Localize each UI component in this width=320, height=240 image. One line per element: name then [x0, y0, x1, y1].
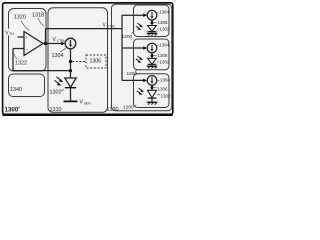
ground unit 1: [151, 32, 153, 34]
leader 1304: [60, 48, 66, 52]
svg-text:CTRL: CTRL: [57, 39, 66, 43]
svg-text:1306: 1306: [158, 87, 169, 92]
leader 1200 unit 2: [135, 70, 137, 72]
block 1330 (right outer rounded box): [112, 4, 172, 111]
wire branch to unit 3: [122, 79, 144, 81]
wire VTH to op-amp plus input: [18, 36, 25, 38]
svg-text:1340: 1340: [10, 87, 22, 93]
leader 1302 unit 1: [157, 28, 159, 31]
leader 1200 unit 1: [132, 31, 135, 34]
node junction unit 2: [151, 54, 154, 57]
svg-text:1322: 1322: [15, 61, 27, 67]
wire branch to unit 1: [122, 14, 144, 16]
svg-text:TH: TH: [9, 32, 14, 36]
svg-text:1306: 1306: [158, 53, 169, 58]
svg-text:1320: 1320: [14, 15, 26, 21]
node junction lower: [69, 69, 72, 72]
svg-text:1304: 1304: [159, 42, 170, 47]
leader 1322: [14, 54, 17, 60]
leader 1304 unit 3: [157, 79, 159, 82]
figure frame 1300': [3, 3, 173, 115]
LED unit 3: [148, 90, 157, 98]
leader 1306 unit 2: [154, 54, 157, 56]
LED arrows unit 3: [139, 88, 143, 91]
svg-text:1300′: 1300′: [5, 107, 21, 114]
leader 1200 unit 3: [134, 105, 136, 107]
wire and junction unit 3: [151, 85, 153, 90]
wire current source to LED: [70, 49, 72, 78]
ground unit 3: [151, 98, 153, 102]
current source unit 1: [147, 10, 157, 20]
svg-text:1330: 1330: [107, 107, 119, 113]
svg-text:SEN: SEN: [84, 101, 91, 105]
leader 1302 unit 3: [157, 94, 160, 96]
svg-text:+: +: [25, 35, 28, 40]
LED unit 2: [148, 58, 157, 64]
wire 1322: op-amp minus input horizontal segment: [13, 48, 24, 50]
block 1200 unit 2: [134, 39, 170, 70]
node junction unit 1: [151, 21, 154, 24]
svg-text:1302: 1302: [50, 90, 62, 96]
node VTH label: [4, 29, 18, 36]
svg-text:1302: 1302: [160, 60, 171, 65]
leader 1318: [38, 18, 44, 26]
LED unit 1: [148, 26, 157, 32]
LED arrows unit 1: [138, 23, 142, 26]
svg-text:1310: 1310: [50, 107, 62, 113]
svg-text:1304: 1304: [159, 10, 170, 15]
leader 1304 unit 2: [157, 44, 159, 47]
leader 1306 unit 1: [154, 22, 157, 24]
block 1200 unit 3: [134, 74, 170, 108]
block 1306 (dashed box): [86, 55, 106, 68]
current source 1304 (in 1310): [65, 38, 76, 49]
LED arrows: [57, 77, 62, 81]
svg-text:1302: 1302: [161, 93, 172, 98]
block 1340 (bottom-left rounded box): [9, 74, 45, 97]
block 1310 (middle rounded box): [48, 8, 108, 113]
svg-text:1200: 1200: [122, 34, 133, 40]
svg-text:1306: 1306: [90, 59, 102, 65]
block: amplifier box (left rounded box): [9, 9, 47, 72]
wire 1318: VCTRL riser: [45, 29, 47, 44]
node VSEN terminal bar: [64, 100, 78, 102]
wire 1318: VCTRL top horizontal run: [46, 28, 123, 30]
svg-text:1318: 1318: [32, 13, 44, 19]
leader 1302: [61, 89, 65, 92]
wire VCTRL bus (vertical): [121, 15, 123, 80]
svg-text:1302: 1302: [160, 27, 171, 32]
wire branch to unit 2: [122, 47, 144, 49]
svg-text:1304: 1304: [52, 53, 64, 59]
leader 1306 unit 3: [154, 87, 157, 89]
LED arrows unit 2: [138, 56, 142, 59]
current source unit 2: [147, 43, 157, 53]
svg-text:1304: 1304: [160, 78, 171, 83]
wire and junction unit 2: [151, 53, 153, 59]
wire 1322: feedback bottom run to LED node: [13, 70, 71, 72]
svg-text:1200: 1200: [123, 105, 134, 111]
svg-text:CTRL: CTRL: [107, 24, 116, 28]
svg-text:1306: 1306: [158, 20, 169, 25]
ground unit 2: [151, 64, 153, 66]
wire op-amp output to current source: [46, 43, 63, 45]
LED 1302 (in 1310): [65, 78, 76, 87]
current source unit 3: [147, 76, 157, 86]
node junction upper: [69, 60, 72, 63]
leader 1304 unit 1: [157, 11, 159, 14]
node junction unit 3: [151, 86, 154, 89]
wire 1322: feedback vertical segment: [12, 49, 14, 71]
op-amp 1320: [24, 32, 43, 56]
wire LED to VSEN terminal: [70, 88, 72, 102]
svg-text:−: −: [26, 47, 29, 52]
leader 1302 unit 2: [157, 61, 159, 64]
block 1200 unit 1: [134, 5, 170, 37]
node at op-amp output: [44, 42, 48, 46]
wire dashed to 1306 box: [72, 61, 86, 63]
leader 1320: [21, 21, 30, 31]
current source 1304 internal arrow: [70, 40, 72, 46]
wire and junction unit 1: [151, 20, 153, 26]
